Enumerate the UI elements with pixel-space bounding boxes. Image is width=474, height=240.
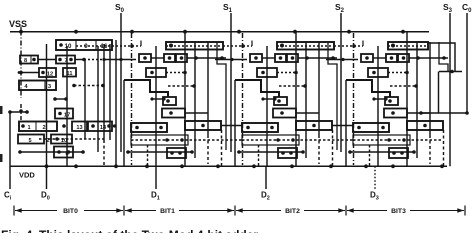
svg-text:VDD: VDD	[19, 171, 35, 180]
svg-text:VSS: VSS	[9, 19, 27, 29]
dimension bar at 235	[234, 206, 236, 216]
transistor row box M10/M9/M16	[56, 40, 112, 50]
svg-text:5: 5	[28, 138, 31, 144]
svg-text:9: 9	[84, 43, 88, 50]
svg-text:8: 8	[24, 58, 27, 64]
dimension bar right end	[464, 206, 466, 216]
bit2 transistor row4	[274, 97, 287, 105]
transistor M7	[56, 56, 75, 64]
bit1 gate bus tick	[140, 41, 142, 47]
bit1 long transistor box row6 right	[185, 121, 221, 130]
bit2 wire dashed row3	[279, 85, 305, 87]
bit2 transistor row8	[278, 148, 297, 158]
transistor M5	[18, 135, 44, 144]
bit3 transistor row8	[389, 148, 408, 158]
svg-text:2: 2	[42, 125, 45, 131]
bit1 vertical col2	[184, 32, 186, 167]
bit1 step wire top right	[217, 42, 226, 150]
bit1 transistor row4	[163, 97, 176, 105]
bit2 wire row5 out y113	[296, 112, 319, 114]
bit2 vertical col4	[318, 42, 320, 135]
VDD rail	[10, 165, 447, 167]
wire S1 vertical	[230, 13, 232, 152]
svg-text:Fig. 4. This layout of the Two: Fig. 4. This layout of the Two-Mod 4-bit…	[1, 228, 261, 233]
wire bit0 vertical col2	[66, 46, 68, 166]
bit2 dashed gate bus y46 inner	[277, 45, 332, 47]
wire short row4	[55, 98, 66, 100]
bit3 vertical col D out	[377, 46, 379, 166]
bit2 dashed vertical right	[332, 130, 334, 166]
bit1 dashed vertical right	[221, 130, 223, 166]
bit3 wire gate row right	[409, 57, 448, 59]
bit2 vertical col2	[295, 32, 297, 167]
bit2 wire row6 connector	[332, 125, 353, 127]
wire D0 vertical stub	[46, 166, 48, 189]
wire bit0 dashed gate bus y46	[76, 45, 112, 47]
scan artifact left edge 2	[0, 154, 3, 162]
wire dashed row3	[74, 85, 103, 87]
bit3 dashed gate bus y46 inner	[388, 45, 428, 47]
bit1 dashed gate bus y46 inner	[166, 45, 221, 47]
bit1 wire row7 dashed connector	[221, 139, 242, 141]
wire M7 right	[75, 59, 84, 61]
transistor M13	[72, 122, 87, 132]
wire bit0 vertical col5	[115, 40, 117, 166]
bit3 gate bus tick	[362, 41, 364, 47]
bit1 left boundary vertical	[123, 80, 125, 166]
wire C0 horizontal bottom	[421, 112, 467, 114]
bit1 dashed gate bus y46 left	[112, 45, 141, 47]
svg-text:12: 12	[47, 72, 53, 78]
bit1 transistor pair	[164, 54, 175, 62]
bit3 transistor row4	[385, 97, 398, 105]
wire Ci vertical left edge	[9, 112, 11, 189]
svg-text:10: 10	[65, 43, 72, 50]
bit1 wire row5 out y113	[185, 112, 208, 114]
bit2 transistor mid	[257, 68, 277, 77]
bit3 wire dashed row3	[390, 85, 416, 87]
bit3 vertical col3	[416, 42, 418, 158]
wire dashed row6	[39, 138, 104, 140]
bit1 dashed transistor box row7	[131, 135, 188, 145]
transistor M11	[63, 68, 76, 77]
bit1 wire row8	[128, 151, 192, 153]
bit2 long transistor box row6 left	[242, 123, 278, 132]
bit3 transistor pair	[386, 54, 397, 62]
wire bit0 dash-dot vertical	[20, 31, 22, 99]
wire C0 vertical	[466, 13, 468, 113]
transistor M17	[55, 109, 73, 119]
bit3 wire y99 short	[374, 98, 386, 100]
bit2 wire row8	[239, 151, 303, 153]
bit1 vertical col4	[207, 42, 209, 135]
bit3 transistor left small	[361, 54, 373, 62]
bit2 gate bus tick	[251, 41, 253, 47]
transistor M1/M2 box	[19, 122, 57, 132]
bit3 dash-dot vertical left	[353, 33, 355, 165]
bit2 dashed gate bus y46 left	[223, 45, 252, 47]
bit1 dash-dot vertical left	[131, 33, 133, 165]
transistor M10b	[51, 135, 72, 144]
bit1 wire gate row right	[187, 57, 226, 59]
wire bit0 vertical col4b	[97, 46, 99, 152]
wire S3 vertical	[449, 13, 451, 166]
bit3 wire gate feed y59.5	[326, 59, 358, 61]
wire bit0 junction y59.5	[102, 58, 105, 61]
bit3 vertical col4	[429, 42, 431, 135]
VSS rail junction dots	[19, 30, 23, 34]
bit1 wire gate feed y59.5	[104, 59, 136, 61]
transistor M4/M3 box	[19, 81, 56, 91]
bit1 transistor left small	[139, 54, 151, 62]
wire M8-M7	[38, 59, 56, 61]
transistor M14	[88, 122, 112, 132]
bit1 wire y99 short	[152, 98, 164, 100]
bit1 wire dashed mid row	[166, 72, 185, 74]
bit2 dashed vertical mid-left	[258, 145, 260, 166]
bit3 transistor mid	[368, 68, 388, 77]
bit1 transistor mid	[146, 68, 166, 77]
bit3 step wire top right	[439, 42, 448, 72]
svg-text:13: 13	[76, 125, 82, 131]
wire S0 vertical	[120, 13, 122, 152]
bit2 dash-dot vertical left	[242, 33, 244, 165]
dimension bar at 124	[123, 206, 125, 216]
bit1 dashed vertical mid-left	[147, 145, 149, 166]
wire bit0 vertical col4c	[109, 44, 111, 140]
dimension bar at 346	[345, 206, 347, 216]
dimension bar at 14	[13, 206, 15, 216]
bit2 wire dashed mid row	[277, 72, 296, 74]
bit3 dashed vertical mid-left	[369, 145, 371, 166]
bit1 staircase wire	[124, 80, 168, 97]
bit2 transistor left small	[250, 54, 262, 62]
bit1 vertical col D out	[155, 46, 157, 166]
bit2 step wire top right	[328, 42, 337, 150]
bit1 transistor row5	[162, 109, 185, 118]
VDD rail junction dots	[45, 164, 49, 168]
wire dashed row1	[84, 59, 104, 61]
bit3 long transistor box top	[388, 42, 428, 50]
bit1 long transistor box row6 left	[131, 123, 167, 132]
bit3 dashed transistor box row7	[353, 135, 410, 145]
bit1 vertical col3	[194, 42, 196, 158]
svg-text:BIT3: BIT3	[391, 208, 406, 215]
svg-text:BIT2: BIT2	[285, 208, 300, 215]
bit2 wire gate feed y59.5	[215, 59, 247, 61]
transistor M6	[54, 147, 73, 158]
scan artifact left edge 1	[0, 106, 3, 114]
bit2 long transistor box top	[277, 42, 334, 50]
bit2 wire gate row right	[298, 57, 337, 59]
bit2 staircase wire	[235, 80, 279, 97]
dimension arrow line BIT3 right	[410, 210, 464, 212]
VSS rail left tick	[20, 27, 22, 32]
VSS rail	[10, 31, 429, 33]
wire carry stub y71.5	[439, 71, 462, 73]
bit2 dashed transistor box row7	[242, 135, 299, 145]
bit2 left boundary vertical	[234, 80, 236, 166]
bit3 long transistor box row6 right	[407, 121, 443, 130]
bit3 wire row8	[350, 151, 414, 153]
wire D3 vertical stub	[374, 166, 376, 189]
bit2 transistor row5	[273, 109, 296, 118]
bit1 transistor row8	[167, 148, 186, 158]
wire bit0 vertical col3	[84, 60, 86, 140]
bit3 wire dashed mid row	[388, 72, 407, 74]
bit3 wire gate row left	[373, 57, 386, 59]
bit2 wire row7 dashed connector	[332, 139, 353, 141]
dimension arrow line BIT2 left	[236, 210, 281, 212]
bit1 wire dashed row7	[131, 139, 221, 141]
dimension arrow line BIT0 left	[15, 210, 57, 212]
bit2 wire y99 short	[263, 98, 275, 100]
bit1 wire row6 connector	[221, 125, 242, 127]
dimension arrow line BIT2 right	[304, 210, 345, 212]
wire carry step top right	[428, 43, 455, 72]
dimension arrow line BIT3 left	[347, 210, 387, 212]
svg-text:1: 1	[27, 125, 30, 131]
bit2 long transistor box row6 right	[296, 121, 332, 130]
svg-text:BIT0: BIT0	[63, 208, 78, 215]
dimension arrow line BIT1 right	[179, 210, 234, 212]
transistor M8	[20, 56, 38, 64]
dimension arrow line BIT0 right	[84, 210, 123, 212]
bit1 wire gate row left	[151, 57, 164, 59]
wire carry vertical mid	[438, 72, 440, 114]
wire D2 vertical stub	[265, 166, 267, 189]
bit3 vertical col2	[406, 32, 408, 167]
wire row7	[20, 151, 83, 153]
bit3 dashed gate bus y46 left	[334, 45, 363, 47]
bit1 long transistor box top	[166, 42, 223, 50]
bit3 transistor row5	[384, 109, 407, 118]
wire left stub horizontal	[10, 111, 28, 113]
bit2 vertical col3	[305, 42, 307, 158]
wire bit0 vertical col1	[46, 44, 48, 165]
wire gate row2	[18, 72, 39, 74]
bit3 wire dashed row7	[353, 139, 443, 141]
bit1 wire dashed row3	[168, 85, 194, 87]
wire node dot row5	[62, 124, 66, 128]
svg-text:BIT1: BIT1	[160, 208, 175, 215]
bit2 wire dashed row7	[242, 139, 332, 141]
bit3 long transistor box row6 left	[353, 123, 389, 132]
bit3 left boundary vertical	[345, 80, 347, 166]
bit2 vertical col D out	[266, 46, 268, 166]
bit3 dashed vertical right	[443, 130, 445, 166]
bit3 wire row5 out y113	[407, 112, 430, 114]
bit2 transistor pair	[275, 54, 286, 62]
bit3 staircase wire	[346, 80, 390, 97]
transistor M12	[39, 68, 56, 77]
wire D1 vertical stub	[155, 166, 157, 189]
wire S2 vertical	[340, 13, 342, 152]
dimension arrow line BIT1 left	[125, 210, 156, 212]
wire node dot right of M14	[113, 124, 116, 127]
wire bit0 vertical col4	[103, 44, 105, 140]
bit2 wire gate row left	[262, 57, 275, 59]
